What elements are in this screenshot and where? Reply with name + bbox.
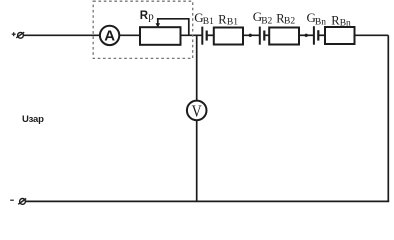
svg-text:Bn: Bn xyxy=(315,17,326,27)
svg-text:B2: B2 xyxy=(284,17,295,27)
svg-text:V: V xyxy=(192,102,203,121)
svg-text:B2: B2 xyxy=(261,16,272,26)
svg-text:R: R xyxy=(218,13,227,27)
svg-text:A: A xyxy=(104,28,115,45)
svg-text:B1: B1 xyxy=(227,17,238,27)
svg-text:p: p xyxy=(148,11,154,23)
svg-text:Uзар: Uзар xyxy=(22,114,44,125)
svg-text:B1: B1 xyxy=(203,17,214,27)
svg-text:Bn: Bn xyxy=(340,19,351,29)
